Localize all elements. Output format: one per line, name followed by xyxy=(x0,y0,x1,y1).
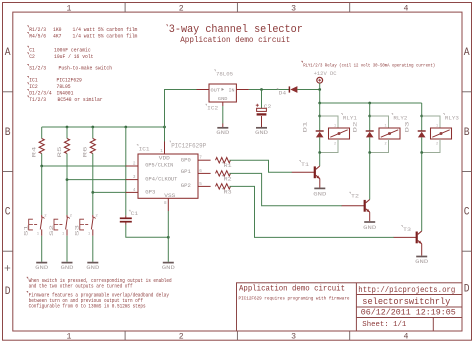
svg-text:GND: GND xyxy=(255,129,269,136)
svg-text:GND: GND xyxy=(313,191,327,198)
svg-text:selectorswitchrly: selectorswitchrly xyxy=(362,297,450,307)
wire D4 to +12V node xyxy=(297,89,319,91)
node R4/S1/GP5 junction xyxy=(40,165,43,168)
svg-text:2: 2 xyxy=(179,4,184,13)
wire RLY2 top pin xyxy=(370,116,389,128)
svg-text:BC548 or similar: BC548 or similar xyxy=(58,96,103,103)
wire D3 top xyxy=(421,116,423,131)
relay RLY2 label xyxy=(392,114,393,115)
svg-text:2: 2 xyxy=(436,143,438,147)
svg-text:S2: S2 xyxy=(48,224,55,236)
wire R6 bottom xyxy=(92,154,94,193)
frame row ticks right xyxy=(462,91,472,93)
wire rail drop RLY3 xyxy=(421,103,423,116)
wire RLY3 top pin xyxy=(422,116,440,128)
parts list line S1/2/3 xyxy=(27,64,28,65)
svg-text:and the two other outputs are: and the two other outputs are turned off xyxy=(29,284,133,290)
ground below T3 xyxy=(416,256,427,258)
IC1 label xyxy=(137,145,138,146)
svg-text:78L05: 78L05 xyxy=(216,71,233,78)
transistor T1 xyxy=(292,171,315,173)
wire S1 to ground xyxy=(41,236,43,262)
note when switch pressed xyxy=(27,277,28,278)
IC2 GND pin xyxy=(222,102,224,106)
capacitor C2 polarity plus xyxy=(256,104,259,107)
svg-text:1: 1 xyxy=(66,4,71,13)
svg-text:5: 5 xyxy=(199,182,202,187)
svg-text:IN: IN xyxy=(229,87,235,93)
svg-text:R2: R2 xyxy=(224,175,233,182)
capacitor C1 label xyxy=(129,210,130,211)
wire RLY1 top pin xyxy=(320,116,338,128)
node R6/S3/GP3 junction xyxy=(91,191,94,194)
resistor R5 xyxy=(66,127,68,139)
svg-text:GP1: GP1 xyxy=(181,169,191,175)
node RLY2 bottom junction xyxy=(368,151,371,154)
wire +12V to rail xyxy=(319,90,321,104)
switch S1 xyxy=(41,215,43,218)
transistor T1 label xyxy=(299,161,300,162)
IC2 label xyxy=(205,104,206,105)
svg-text:1/4 watt 5% carbon film: 1/4 watt 5% carbon film xyxy=(73,33,138,40)
svg-text:1: 1 xyxy=(384,125,386,129)
node RLY1 top junction xyxy=(318,115,321,118)
IC1 pin 6 GP1 xyxy=(198,172,211,174)
switch S2 xyxy=(66,215,68,218)
wire RLY3 bottom pin xyxy=(422,139,440,153)
relay RLY3 coil xyxy=(431,128,452,139)
svg-text:PIC12F629 requires programing: PIC12F629 requires programing with firmw… xyxy=(239,295,350,301)
parts list line C2 xyxy=(27,53,28,54)
svg-text:1: 1 xyxy=(88,232,91,236)
resistor R2 xyxy=(216,171,231,176)
diode D4 xyxy=(288,86,290,92)
svg-text:3-way channel selector: 3-way channel selector xyxy=(169,24,303,36)
wire R3 to T3 base xyxy=(230,186,395,237)
svg-text:R5: R5 xyxy=(56,146,63,158)
node RLY2 top junction xyxy=(368,115,371,118)
resistor R4 xyxy=(41,127,43,139)
transistor T3 xyxy=(394,236,417,238)
wire S2 to ground xyxy=(66,236,68,262)
transistor T3 label xyxy=(401,226,402,227)
wire R1 to T1 base xyxy=(230,160,293,172)
svg-text:D: D xyxy=(5,286,11,298)
transistor T2 label xyxy=(349,192,350,193)
regulator IC2 78L05 box xyxy=(209,84,236,102)
svg-text:10uF / 16 volt: 10uF / 16 volt xyxy=(54,53,93,60)
wire GP5 net xyxy=(42,165,126,167)
schematic title xyxy=(166,25,167,26)
wire C2 bottom xyxy=(261,116,263,127)
wire S1 drop xyxy=(41,166,43,215)
parts list line R4/5/6 xyxy=(27,32,28,33)
IC1 pin 2 xyxy=(126,165,138,167)
IC1 pin 3 xyxy=(126,179,138,181)
svg-text:A: A xyxy=(464,47,470,59)
svg-text:T2: T2 xyxy=(351,193,360,200)
svg-text:RLY1: RLY1 xyxy=(343,114,358,121)
svg-text:Application demo circuit: Application demo circuit xyxy=(239,285,345,294)
wire D1 bottom xyxy=(319,137,321,152)
transistor T2 xyxy=(342,205,365,207)
svg-text:1: 1 xyxy=(62,232,65,236)
diode D4 label xyxy=(277,89,278,90)
wire S3 drop xyxy=(92,192,94,215)
svg-text:A: A xyxy=(5,47,11,59)
svg-text:D1: D1 xyxy=(302,121,309,133)
parts list line D1/2/3/4 xyxy=(27,89,28,90)
svg-text:S1: S1 xyxy=(23,224,30,236)
svg-text:GP3: GP3 xyxy=(145,189,155,195)
svg-text:C1: C1 xyxy=(131,210,139,217)
wire GP4 net xyxy=(67,179,126,181)
wire D2 bottom xyxy=(369,137,371,152)
wire S3 to ground xyxy=(92,236,94,262)
svg-text:R3: R3 xyxy=(224,188,233,195)
svg-text:2: 2 xyxy=(133,162,136,167)
svg-text:D3: D3 xyxy=(404,121,411,133)
svg-text:3: 3 xyxy=(291,4,296,13)
diode D1 xyxy=(316,130,324,132)
+12V DC supply symbol xyxy=(317,77,323,83)
svg-text:D4: D4 xyxy=(279,89,287,96)
svg-text:VDD: VDD xyxy=(159,156,170,162)
ground below C2 xyxy=(256,127,267,129)
svg-text:S1/2/3: S1/2/3 xyxy=(29,65,46,72)
svg-text:C: C xyxy=(464,207,470,219)
resistor R1 label xyxy=(222,162,223,163)
IC1 pin 1 VDD xyxy=(164,142,166,155)
title block row lines xyxy=(356,294,462,296)
IC1 pin 5 GP2 xyxy=(198,185,211,187)
switch S3 xyxy=(92,215,94,218)
svg-text:+12V DC: +12V DC xyxy=(314,71,337,77)
svg-text:GP4/CLKOUT: GP4/CLKOUT xyxy=(145,176,177,182)
svg-text:3: 3 xyxy=(133,175,136,180)
wire R5 bottom xyxy=(66,154,68,180)
node +12V / D4 junction xyxy=(318,88,321,91)
svg-text:6: 6 xyxy=(199,169,202,174)
title block divider vertical xyxy=(355,283,357,331)
svg-text:1: 1 xyxy=(37,232,40,236)
frame column ticks bottom xyxy=(124,331,126,340)
diode D3 xyxy=(418,130,426,132)
wire +12V rail xyxy=(320,102,422,104)
svg-text:B: B xyxy=(5,127,11,139)
svg-text:C: C xyxy=(5,207,11,219)
wire RLY2 bottom pin xyxy=(370,139,389,153)
relay RLY3 label xyxy=(443,114,444,115)
svg-text:R4/5/6: R4/5/6 xyxy=(29,33,46,40)
svg-text:GP5/CLKIN: GP5/CLKIN xyxy=(145,162,173,168)
svg-text:D: D xyxy=(464,284,470,296)
IC1 pin 4 xyxy=(126,191,138,193)
ground below T1 xyxy=(314,187,325,189)
node R5/S2/GP4 junction xyxy=(66,178,69,181)
frame row ticks left xyxy=(3,91,13,93)
node C1/VSS junction xyxy=(167,236,170,239)
wire regulator IN xyxy=(249,89,289,91)
wire VDD pin up xyxy=(164,127,166,142)
wire RLY1 to T1 collector xyxy=(319,153,321,167)
wire rail drop RLY2 xyxy=(369,103,371,116)
IC2 IN pin xyxy=(236,89,249,91)
svg-text:3: 3 xyxy=(291,333,296,342)
IC2 value label 78L05 xyxy=(214,70,215,71)
svg-text:2: 2 xyxy=(334,143,336,147)
IC2 pin arrow xyxy=(222,88,225,91)
svg-text:OUT: OUT xyxy=(211,87,221,93)
svg-text:GND: GND xyxy=(61,264,75,271)
wire regulator OUT to VDD xyxy=(165,90,197,128)
svg-text:S3: S3 xyxy=(74,224,81,236)
svg-text:GP2: GP2 xyxy=(181,183,191,189)
svg-text:2: 2 xyxy=(95,215,98,219)
svg-text:2: 2 xyxy=(384,143,386,147)
wire D1 top xyxy=(319,116,321,131)
ground below IC1 VSS xyxy=(163,262,174,264)
svg-text:1: 1 xyxy=(66,333,71,342)
wire RLY2 to T2 collector xyxy=(369,153,371,200)
svg-text:Push-to-make switch: Push-to-make switch xyxy=(59,65,113,72)
svg-text:B: B xyxy=(464,127,470,139)
wire R2 to T2 base xyxy=(230,173,343,205)
parts list line IC1 xyxy=(27,76,28,77)
svg-text:06/12/2011 12:19:05: 06/12/2011 12:19:05 xyxy=(361,308,456,318)
wire VDD horizontal rail to pullups xyxy=(42,126,165,128)
node VDD junction regulator branch xyxy=(163,126,166,129)
relay RLY1 label xyxy=(341,114,342,115)
node rail junction ch1 xyxy=(318,102,321,105)
svg-text:RLY3: RLY3 xyxy=(445,114,459,121)
svg-text:1: 1 xyxy=(436,125,438,129)
svg-text:4: 4 xyxy=(403,333,408,342)
parts list line R1/2/3 xyxy=(27,26,28,27)
svg-text:IC1: IC1 xyxy=(139,145,151,152)
capacitor C1 xyxy=(120,217,132,219)
svg-text:T3: T3 xyxy=(403,226,412,233)
svg-text:VSS: VSS xyxy=(164,193,175,199)
wire T3 emitter to ground xyxy=(421,244,423,256)
wire +12V down xyxy=(319,83,321,89)
wire C1 top xyxy=(125,127,127,216)
ground below S2 xyxy=(62,262,73,264)
node rail junction ch2 xyxy=(368,102,371,105)
relay RLY1 coil xyxy=(329,128,350,139)
resistor R1 xyxy=(216,158,231,163)
wire VSS pin down xyxy=(167,211,169,262)
wire R4 bottom xyxy=(41,154,43,167)
svg-text:R4: R4 xyxy=(31,146,38,158)
parts list line T1/2/3 xyxy=(27,96,28,97)
svg-text:2: 2 xyxy=(70,215,73,219)
IC1 pin 7 GP0 xyxy=(198,159,211,161)
svg-text:C2: C2 xyxy=(264,103,272,110)
wire RLY3 to T3 collector xyxy=(421,153,423,232)
ground below S3 xyxy=(87,262,98,264)
svg-text:IC2: IC2 xyxy=(207,105,219,112)
svg-text:D2: D2 xyxy=(352,121,359,133)
registration cross mark left margin xyxy=(5,265,11,271)
capacitor C2 xyxy=(257,108,267,111)
svg-text:RLY2: RLY2 xyxy=(393,114,407,121)
ground below IC2 xyxy=(217,127,228,129)
node VDD junction R5 top xyxy=(66,126,69,129)
ground below T2 xyxy=(364,221,375,223)
svg-text:GND: GND xyxy=(86,264,100,271)
svg-text:GND: GND xyxy=(216,129,230,136)
svg-text:4: 4 xyxy=(133,188,136,193)
resistor R6 xyxy=(92,127,94,139)
wire T1 emitter to ground xyxy=(319,179,321,188)
svg-text:Configurable from 0 to 130mS i: Configurable from 0 to 130mS in 0.512mS … xyxy=(29,303,146,309)
node VDD junction C1 branch xyxy=(124,126,127,129)
svg-text:C2: C2 xyxy=(29,53,35,60)
svg-text:GP0: GP0 xyxy=(181,157,191,163)
resistor R3 xyxy=(216,184,231,189)
relay note annotation xyxy=(301,61,302,62)
svg-text:4K7: 4K7 xyxy=(53,33,62,40)
svg-text:GND: GND xyxy=(415,258,429,265)
frame column ticks top xyxy=(124,3,126,13)
relay RLY2 coil xyxy=(379,128,400,139)
wire IC2 GND down xyxy=(222,106,224,124)
title block sheet cell divider xyxy=(432,318,434,332)
svg-text:1: 1 xyxy=(334,125,336,129)
op-amp IC1 PIC12F629 box xyxy=(138,154,198,198)
svg-text:2: 2 xyxy=(179,333,184,342)
title block outline xyxy=(237,283,463,331)
IC1 pin 8 VSS xyxy=(167,198,169,211)
svg-text:4: 4 xyxy=(403,4,408,13)
svg-text:GND: GND xyxy=(35,264,49,271)
wire D2 top xyxy=(369,116,371,131)
wire T2 emitter to ground xyxy=(369,212,371,221)
svg-text:R6: R6 xyxy=(82,146,89,158)
note firmware overlap xyxy=(27,291,28,292)
svg-text:Sheet: 1/1: Sheet: 1/1 xyxy=(362,321,406,329)
svg-text:GND: GND xyxy=(162,264,176,271)
svg-text:GND: GND xyxy=(363,224,377,231)
node C2 junction xyxy=(260,88,263,91)
resistor R3 label xyxy=(222,188,223,189)
IC1 value label xyxy=(169,141,170,142)
wire C1 bottom to VSS net xyxy=(126,225,169,238)
node RLY3 top junction xyxy=(420,115,423,118)
diode D2 xyxy=(366,130,374,132)
svg-text:T1/2/3: T1/2/3 xyxy=(29,96,46,103)
svg-text:GND: GND xyxy=(218,96,228,102)
svg-text:T1: T1 xyxy=(301,161,310,168)
parts list line IC2 xyxy=(27,83,28,84)
parts list line C1 xyxy=(27,46,28,47)
wire D3 bottom xyxy=(421,137,423,152)
node VDD junction R6 top xyxy=(91,126,94,129)
wire GP3 net xyxy=(93,191,126,193)
wire RLY1 bottom pin xyxy=(320,139,338,153)
IC2 OUT pin xyxy=(197,89,210,91)
svg-text:PIC12F629P: PIC12F629P xyxy=(171,142,206,149)
svg-text:RLY1/2/3 Relay (coil 12 volt: RLY1/2/3 Relay (coil 12 volt 30-50mA ope… xyxy=(303,62,435,68)
resistor R2 label xyxy=(222,175,223,176)
svg-text:Application demo circuit: Application demo circuit xyxy=(180,35,290,45)
node RLY3 bottom junction xyxy=(420,151,423,154)
ground below S1 xyxy=(36,262,47,264)
svg-text:1: 1 xyxy=(160,149,163,154)
svg-text:http://picprojects.org: http://picprojects.org xyxy=(358,286,455,295)
wire rail drop RLY1 xyxy=(319,103,321,116)
svg-text:8: 8 xyxy=(164,201,167,206)
wire C2 top xyxy=(261,90,263,109)
svg-text:7: 7 xyxy=(199,156,202,161)
svg-text:R1: R1 xyxy=(224,162,233,169)
node RLY1 bottom junction xyxy=(318,151,321,154)
wire S2 drop xyxy=(66,180,68,215)
svg-text:2: 2 xyxy=(44,215,47,219)
